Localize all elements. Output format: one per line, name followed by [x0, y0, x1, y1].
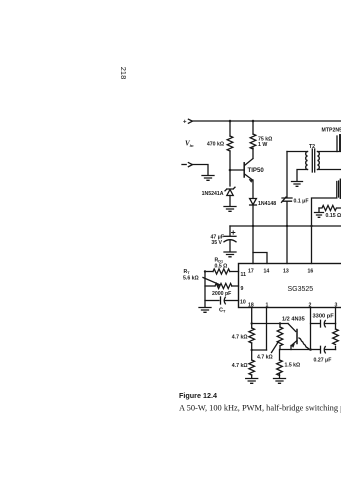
svg-text:0.15 Ω: 0.15 Ω	[326, 213, 341, 219]
svg-text:4.7 kΩ: 4.7 kΩ	[257, 355, 273, 361]
svg-text:11: 11	[241, 272, 247, 278]
svg-text:10: 10	[240, 300, 246, 306]
svg-text:A 50-W, 100 kHz, PWM, half-bri: A 50-W, 100 kHz, PWM, half-bridge switch…	[179, 404, 341, 413]
svg-text:17: 17	[248, 269, 254, 275]
svg-text:TIP50: TIP50	[248, 167, 265, 174]
svg-text:CT: CT	[219, 308, 226, 314]
svg-text:2: 2	[309, 303, 312, 309]
svg-text:0.5 Ω: 0.5 Ω	[215, 263, 228, 269]
svg-text:0.1 μF: 0.1 μF	[294, 198, 309, 204]
svg-text:3300 pF: 3300 pF	[313, 314, 335, 320]
svg-text:3: 3	[335, 303, 338, 309]
svg-text:16: 16	[308, 269, 314, 275]
svg-text:1N4148: 1N4148	[258, 201, 276, 207]
svg-text:T2: T2	[309, 144, 315, 150]
svg-text:1: 1	[266, 303, 269, 309]
svg-text:35 V: 35 V	[211, 240, 222, 246]
svg-text:SG3525: SG3525	[288, 286, 314, 293]
svg-text:1/2 4N35: 1/2 4N35	[282, 317, 305, 323]
svg-text:Figure 12.4: Figure 12.4	[179, 391, 217, 400]
svg-text:218: 218	[119, 67, 128, 80]
svg-text:+: +	[183, 120, 187, 126]
svg-text:1 W: 1 W	[258, 142, 267, 148]
svg-text:MTP2N5: MTP2N5	[322, 128, 341, 134]
svg-text:5.6 kΩ: 5.6 kΩ	[183, 275, 199, 281]
svg-text:9: 9	[241, 286, 244, 292]
svg-text:RT: RT	[184, 269, 191, 275]
svg-text:4.7 kΩ: 4.7 kΩ	[232, 335, 248, 341]
svg-text:4.7 kΩ: 4.7 kΩ	[232, 363, 248, 369]
svg-text:18: 18	[248, 303, 254, 309]
svg-text:0.27 μF: 0.27 μF	[314, 358, 332, 364]
svg-text:2000 pF: 2000 pF	[212, 291, 231, 297]
svg-text:14: 14	[264, 269, 270, 275]
svg-text:1N5241A: 1N5241A	[202, 191, 224, 197]
svg-text:1.5 kΩ: 1.5 kΩ	[285, 363, 301, 369]
svg-text:Vin: Vin	[185, 140, 194, 148]
svg-text:470 kΩ: 470 kΩ	[207, 141, 224, 147]
svg-text:13: 13	[283, 269, 289, 275]
